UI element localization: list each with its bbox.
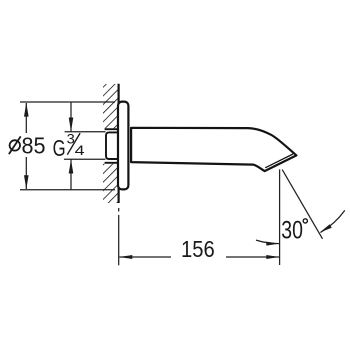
svg-text:30: 30	[281, 216, 303, 244]
svg-text:4: 4	[75, 143, 85, 159]
svg-text:156: 156	[181, 236, 215, 263]
svg-text:G: G	[53, 137, 66, 162]
svg-text:85: 85	[22, 132, 46, 158]
